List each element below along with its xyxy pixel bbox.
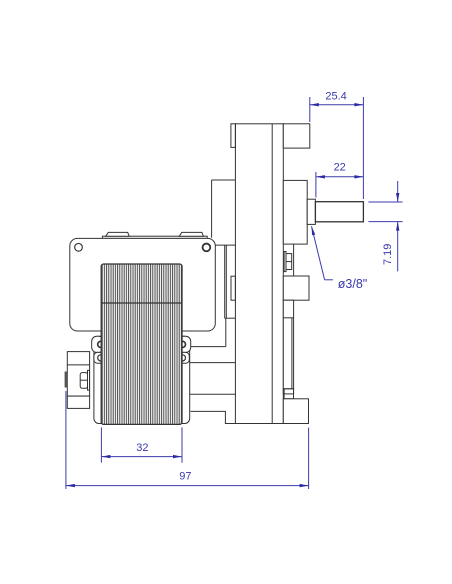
svg-text:22: 22	[334, 162, 346, 174]
svg-text:32: 32	[136, 442, 148, 454]
svg-text:ø3/8": ø3/8"	[338, 277, 367, 291]
svg-text:7.19: 7.19	[382, 244, 394, 265]
svg-text:25.4: 25.4	[325, 91, 346, 103]
svg-text:97: 97	[179, 470, 191, 482]
